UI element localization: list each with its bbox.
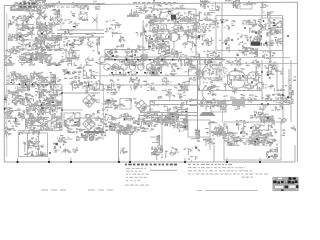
node J37: [261, 103, 263, 105]
bus node x185: [184, 161, 186, 163]
dashed wire v97: [96, 14, 98, 30]
legend rule: [150, 169, 177, 171]
wire v291: [290, 60, 292, 122]
wire h130: [18, 130, 58, 132]
node J11: [128, 72, 130, 74]
wire bus h33: [57, 33, 104, 35]
wire v130: [129, 128, 131, 162]
wire v222b: [222, 106, 224, 122]
legend line 3: [126, 174, 149, 175]
node d84a: [18, 83, 20, 85]
node J2: [126, 59, 128, 61]
node J7: [112, 55, 114, 57]
node J29: [231, 39, 233, 41]
node J16: [263, 20, 265, 22]
tube V3: [248, 72, 259, 86]
bus node x71: [70, 161, 72, 163]
dash row top: [133, 2, 178, 3]
mixer circle: [38, 29, 47, 38]
wire h138: [226, 138, 268, 140]
node J9: [111, 72, 113, 74]
legend line 4: [126, 177, 147, 178]
wire v143: [142, 20, 144, 68]
bus h104: [150, 104, 290, 106]
node J24: [268, 156, 270, 158]
node J25: [250, 127, 252, 129]
title text block: [20, 3, 41, 12]
wire v103: [103, 84, 105, 132]
node J32: [265, 42, 267, 44]
yoke trapezoid: [199, 112, 216, 116]
choke box outline: [18, 133, 47, 157]
node J30: [244, 27, 246, 29]
wire h49: [105, 49, 150, 51]
bus node x260: [259, 161, 261, 163]
node J14: [152, 72, 154, 74]
inner border line: [6, 13, 8, 157]
node J18: [287, 35, 289, 37]
node J19: [254, 114, 256, 116]
diode D1: [83, 95, 96, 108]
crystal Y1: [258, 2, 268, 8]
node d84b: [25, 83, 27, 85]
phase box: [211, 102, 226, 112]
inner box U3: [261, 18, 283, 30]
wire h112: [140, 112, 197, 114]
corner wires: [277, 63, 289, 98]
node J31: [255, 32, 257, 34]
tuner box: [17, 28, 52, 40]
wire top right h3: [222, 2, 258, 4]
bus h100: [150, 100, 290, 102]
bus node x227: [226, 161, 228, 163]
node J42: [162, 40, 164, 42]
wire bus h37: [57, 36, 104, 38]
wire top h5: [48, 2, 105, 4]
wire v105: [104, 49, 106, 60]
diode D2: [83, 118, 96, 131]
diode D4: [196, 70, 204, 78]
bottom dashes mid: [88, 189, 113, 191]
node J26: [256, 138, 258, 140]
node J38: [267, 103, 269, 105]
bus stub ticks: [18, 158, 261, 163]
wire stubs row: [9, 72, 51, 84]
transistor Q4: [29, 101, 38, 110]
wire h63: [225, 63, 297, 65]
node J1: [114, 59, 116, 61]
node J15: [160, 72, 162, 74]
dark label kasaki: [37, 84, 48, 86]
tube V1: [170, 33, 179, 60]
legend line 2: [126, 171, 142, 172]
wire v162: [161, 120, 163, 150]
converter X3: [41, 55, 46, 60]
coil row: [104, 64, 161, 70]
legend line 5: [126, 180, 140, 181]
wire h96: [200, 89, 232, 91]
terminal T-post: [201, 1, 208, 7]
node J40: [287, 96, 289, 98]
tuned circuit box: [100, 57, 200, 85]
node J17: [273, 22, 275, 24]
wire v270: [269, 12, 271, 65]
label box: [93, 84, 103, 90]
wire v118: [118, 133, 120, 162]
node J28: [225, 43, 227, 45]
dashed wire v61: [60, 14, 62, 30]
node d93: [61, 92, 63, 94]
node J34: [251, 81, 253, 83]
sync box: [188, 120, 210, 137]
wire v196: [195, 9, 197, 60]
wire v222: [221, 3, 223, 65]
wire h57: [197, 57, 290, 59]
dark IC chip: [171, 15, 176, 20]
node d110: [61, 109, 63, 111]
node J21: [184, 126, 186, 128]
wire h93: [62, 92, 100, 94]
node J12: [136, 72, 138, 74]
bus node x17.5: [16, 161, 18, 163]
wire h75: [100, 75, 200, 77]
bottom frame bus wire: [4, 145, 295, 162]
bus node x119: [118, 161, 120, 163]
wire v62: [61, 85, 63, 130]
wire v222 top: [221, 3, 223, 12]
wire bus h30: [57, 29, 104, 31]
transistor Q5: [33, 116, 42, 125]
wire h31: [148, 30, 199, 32]
antenna X1: [36, 10, 46, 20]
AGC box: [224, 122, 281, 160]
component field (resistors, capacitors, labels): [4, 0, 296, 163]
deflection box: [197, 64, 220, 78]
osc X2: [48, 19, 62, 48]
node J39: [282, 94, 284, 96]
dark label bar: [84, 131, 104, 133]
legend line 1: [126, 168, 146, 169]
legend right column: [188, 164, 268, 175]
bus node x130: [129, 161, 131, 163]
socket box: [232, 99, 245, 106]
wire h9: [152, 8, 196, 10]
dash left of logo: [242, 177, 254, 178]
node J27: [221, 21, 223, 23]
tube envelope arc: [165, 33, 180, 40]
node J41: [151, 38, 153, 40]
sheet border frame: [4, 2, 297, 162]
wire h110: [62, 109, 83, 111]
wire v283: [282, 30, 284, 122]
dark component block: [251, 42, 260, 46]
node J22: [195, 147, 197, 149]
bus main h60: [105, 59, 225, 61]
node J33: [242, 75, 244, 77]
relay box K1: [234, 1, 253, 9]
audio box: [64, 113, 80, 126]
node J36: [267, 74, 269, 76]
bottom dashes left: [41, 189, 66, 191]
node J8: [134, 54, 136, 56]
text dashes top: [57, 7, 89, 8]
bracket left upper: [202, 66, 206, 80]
node J3: [137, 59, 139, 61]
diode D5: [136, 100, 148, 112]
wire v262: [261, 3, 263, 18]
node d84c: [32, 83, 34, 85]
node J5: [161, 59, 163, 61]
wire v103b: [102, 126, 104, 140]
wire v150: [149, 100, 151, 115]
wire h90: [200, 90, 262, 92]
IF transformer box: [150, 24, 196, 32]
wire v214: [213, 145, 215, 162]
bottom long dash: [197, 190, 258, 192]
wire v197: [197, 60, 199, 130]
switch S1 box: [79, 14, 98, 23]
wire h118: [75, 117, 100, 119]
bracket left lower: [202, 86, 206, 100]
legend heading: [125, 164, 177, 166]
node d109: [4, 108, 6, 110]
node J4: [149, 59, 151, 61]
manufacturer logo block: [272, 177, 298, 191]
node J13: [144, 72, 146, 74]
pin comb: [216, 64, 222, 82]
reg box: [120, 99, 131, 110]
node J20: [267, 117, 269, 119]
wire v210: [209, 137, 211, 150]
node J35: [261, 71, 263, 73]
wire v262b: [261, 60, 263, 100]
tube V2: [228, 71, 246, 93]
node J10: [119, 72, 121, 74]
dashed wire h84: [5, 84, 55, 86]
transformer T1 box: [17, 18, 27, 25]
node J6: [172, 59, 174, 61]
bottom small text: [125, 185, 149, 186]
bus node x49: [48, 161, 50, 163]
wire h115: [140, 115, 197, 117]
node d153: [49, 152, 51, 154]
IF box U2: [216, 16, 283, 51]
node J23: [240, 132, 242, 134]
